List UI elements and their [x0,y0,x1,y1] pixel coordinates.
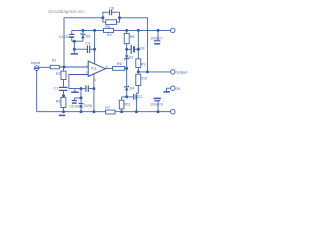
wire +V rail [72,29,104,31]
wire 0V [167,88,171,91]
svg-text:100u C7: 100u C7 [150,36,163,40]
node R3 ground [62,111,64,113]
node C7 rail [157,29,159,31]
ground [71,53,78,55]
svg-text:R1: R1 [52,59,57,63]
node C9 rail [157,111,159,113]
wire ground stub left [73,41,75,53]
capacitor C1 [59,80,68,98]
node pin4 bias [93,88,95,90]
node pin2 [63,66,65,68]
wire bias node [75,88,85,90]
svg-text:D4: D4 [130,86,135,90]
wire pin 3 [69,75,88,89]
node ref top [73,40,75,42]
node R9 rail [137,29,139,31]
zener D7 [79,98,84,112]
resistor R6 [113,67,125,71]
node D6 top [82,29,84,31]
node C1 R3 [62,95,64,97]
diode D3 [124,55,129,68]
node R8 bottom [126,48,128,50]
node C3 left [73,48,75,50]
svg-text:R5: R5 [105,25,110,29]
svg-text:C5 100u: C5 100u [69,104,82,108]
svg-text:Input: Input [31,60,41,65]
zener D6 [81,30,86,41]
wire output row [138,71,170,73]
node pin4 rail [93,111,95,113]
wire R6 to diodes [125,67,127,69]
svg-text:C3: C3 [85,42,90,46]
svg-text:D3: D3 [129,56,134,60]
wire opamp out [105,67,112,69]
ground pin3 bias [71,89,78,93]
svg-text:R6: R6 [117,62,122,66]
resistor R7 [106,110,115,114]
svg-text:R4: R4 [107,33,112,37]
capacitor C4 bias [86,85,94,92]
svg-text:circuitdiagram.net: circuitdiagram.net [48,9,85,14]
capacitor C9 supply [154,98,161,111]
node C8 right [137,48,139,50]
resistor R9 [136,30,141,72]
ground [59,114,65,116]
input jack J1 [34,66,39,71]
node R8 rail [126,29,128,31]
svg-text:R9: R9 [141,62,146,66]
wire feedback top rail [64,18,103,67]
wire input to R1 [39,66,50,68]
resistor R3 [61,97,66,111]
svg-text:R10: R10 [140,77,147,81]
svg-text:R11: R11 [124,102,130,106]
svg-text:C8: C8 [140,46,145,50]
terminal +V [171,28,176,33]
wire input shield [36,71,38,112]
svg-text:R3: R3 [56,99,61,103]
node D7 rail [80,111,82,113]
node bias [80,88,82,90]
svg-text:R2: R2 [56,72,61,76]
svg-text:C4 100u: C4 100u [59,35,72,39]
svg-text:D6: D6 [86,35,91,39]
node feedback left [102,17,104,19]
terminal 0V [171,86,176,91]
capacitor C4 top-left electrolytic [69,30,74,41]
capacitor C3 [74,45,94,53]
capacitor C6 [103,10,120,18]
wire bottom rail [37,111,171,113]
capacitor C2 lower electrolytic [127,94,137,112]
resistor R11 [119,97,124,112]
resistor R2 [61,67,66,80]
capacitor C7 supply [154,30,161,43]
resistor R8 [124,30,129,55]
wire +V rail right [114,29,171,31]
ground 0V [163,91,170,93]
capacitor C5 bottom-left electrolytic [72,98,77,103]
wire C2 to R11 [122,96,127,98]
resistor R10 [136,74,141,94]
node D4 bottom [126,96,128,98]
resistor R5 [103,18,120,25]
resistor R4 [104,28,114,32]
wire pin 7 supply [94,30,96,64]
svg-text:C6: C6 [109,6,114,10]
terminal -V [171,109,176,114]
svg-text:Output: Output [176,70,189,75]
node diode mid [126,67,128,69]
capacitor C8 upper electrolytic [127,45,139,54]
op-amp IC1 [88,61,105,76]
wire zener anode [72,40,83,42]
node C2 rail [135,111,137,113]
node output feedback [146,71,148,73]
node feedback right [118,17,120,19]
svg-text:00: 00 [89,104,93,108]
node R11 rail [121,111,123,113]
node pin7 decouple [94,48,96,50]
wire R1 to pin 2 [59,66,88,68]
svg-text:0V: 0V [176,86,181,91]
wire pin 4 supply [93,74,95,112]
node ref bottom [80,97,82,99]
svg-text:IC1: IC1 [91,67,97,71]
node pin7 rail [94,29,96,31]
diode D4 [124,68,129,97]
resistor R1 [50,65,59,69]
wire bias to ref block [74,89,81,98]
wire feedback top rail right [120,18,148,72]
node output left [137,71,139,73]
svg-text:R8: R8 [130,35,135,39]
svg-text:R7: R7 [105,106,110,110]
terminal Output [171,70,176,75]
svg-text:100u C9: 100u C9 [150,102,163,106]
svg-text:C2: C2 [138,95,143,99]
svg-text:C1: C1 [54,86,59,90]
